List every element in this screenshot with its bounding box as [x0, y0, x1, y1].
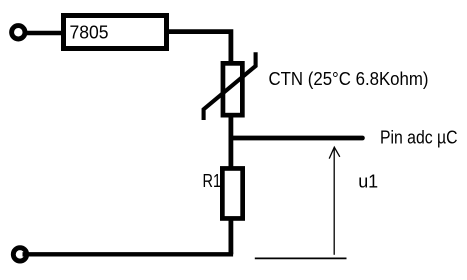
- input terminal (top left): [12, 26, 25, 39]
- resistor R1 body: [222, 168, 242, 218]
- wire R1 to bottom rail: [228, 219, 233, 254]
- arrow u1 head: [329, 147, 340, 158]
- node wire to ADC pin: [231, 136, 362, 141]
- wire terminal to regulator: [23, 31, 64, 36]
- reference line (bottom of u1 arrow): [255, 257, 347, 259]
- svg-text:Pin adc µC: Pin adc µC: [380, 128, 458, 148]
- regulator U1 7805 box: [64, 16, 167, 49]
- svg-text:CTN (25°C 6.8Kohm): CTN (25°C 6.8Kohm): [269, 69, 429, 89]
- thermistor CTN body: [223, 63, 242, 115]
- svg-text:7805: 7805: [70, 22, 109, 42]
- ground terminal (bottom left): [13, 248, 26, 261]
- wire node to R1: [228, 137, 233, 168]
- wire regulator to thermistor: [166, 32, 231, 63]
- bottom rail wire: [23, 252, 234, 256]
- thermistor diagonal stroke: [204, 52, 256, 120]
- svg-text:u1: u1: [358, 171, 378, 191]
- arrow u1 shaft: [333, 147, 335, 254]
- wire thermistor to node: [228, 114, 233, 140]
- svg-text:R1: R1: [203, 171, 222, 191]
